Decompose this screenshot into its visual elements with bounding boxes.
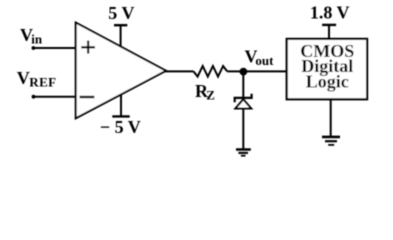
svg-text:in: in — [31, 31, 43, 46]
ground symbol below CMOS block — [322, 137, 340, 145]
svg-text:Z: Z — [206, 87, 215, 102]
wire resistor RZ to node Vout — [227, 70, 243, 72]
svg-text:− 5 V: − 5 V — [100, 117, 141, 137]
CMOS digital logic block U2 — [287, 39, 367, 99]
1.8V supply rail on CMOS block — [322, 25, 336, 39]
svg-text:Logic: Logic — [306, 72, 349, 92]
ground symbol below zener diode — [236, 150, 251, 156]
op-amp plus input marking — [81, 41, 95, 54]
op-amp U1 comparator triangle — [76, 23, 166, 119]
svg-text:5 V: 5 V — [108, 3, 134, 23]
node Vout label — [245, 46, 275, 68]
svg-text:V: V — [17, 68, 30, 88]
wire VREF to op-amp inverting input — [34, 96, 76, 98]
wire node Vout to CMOS logic block input — [243, 70, 286, 72]
op-amp minus input marking — [80, 96, 95, 98]
zener diode D1 anode lead to ground — [242, 109, 244, 150]
wire CMOS block to ground — [330, 99, 332, 137]
-5V supply rail on op-amp — [112, 94, 129, 116]
node Vout junction dot — [240, 68, 248, 76]
input terminal dot VREF — [32, 95, 36, 99]
+5V supply rail on op-amp — [114, 25, 127, 47]
resistor RZ zigzag body — [194, 66, 228, 77]
zener diode D1 cathode bar with bent ends — [235, 94, 252, 103]
svg-text:REF: REF — [29, 75, 56, 90]
wire Vin to op-amp noninverting input — [33, 47, 75, 49]
node Vin label — [20, 25, 43, 47]
resistor RZ value label — [195, 81, 215, 103]
svg-text:out: out — [255, 53, 274, 68]
input terminal dot Vin — [32, 46, 36, 50]
node VREF label — [17, 68, 57, 90]
zener diode D1 anode triangle — [235, 99, 251, 108]
wire op-amp output to resistor RZ — [165, 70, 194, 72]
zener diode D1 cathode lead from node Vout — [242, 72, 244, 98]
svg-text:1.8 V: 1.8 V — [310, 2, 350, 22]
